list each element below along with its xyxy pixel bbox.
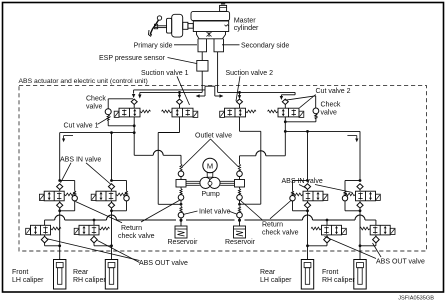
svg-text:ESP pressure sensor: ESP pressure sensor	[99, 55, 166, 62]
svg-text:Suction valve 1: Suction valve 1	[141, 70, 189, 77]
svg-text:check valve: check valve	[262, 229, 299, 236]
svg-text:Front: Front	[12, 269, 28, 276]
svg-text:ABS actuator and electric unit: ABS actuator and electric unit (control …	[19, 78, 148, 85]
svg-text:ABS OUT valve: ABS OUT valve	[376, 259, 425, 266]
svg-text:LH caliper: LH caliper	[12, 277, 44, 284]
svg-text:Front: Front	[322, 269, 338, 276]
svg-text:valve: valve	[321, 109, 337, 116]
svg-text:ABS IN valve: ABS IN valve	[282, 178, 323, 185]
svg-text:Return: Return	[121, 225, 142, 232]
svg-text:Secondary side: Secondary side	[241, 42, 289, 49]
svg-text:check valve: check valve	[118, 233, 155, 240]
svg-text:LH caliper: LH caliper	[260, 277, 292, 284]
svg-text:Cut valve 2: Cut valve 2	[316, 88, 351, 95]
svg-text:Inlet valve: Inlet valve	[199, 209, 231, 216]
svg-text:Cut valve 1: Cut valve 1	[64, 123, 99, 130]
svg-text:Suction valve 2: Suction valve 2	[226, 70, 274, 77]
svg-text:Reservoir: Reservoir	[225, 239, 256, 246]
svg-text:cylinder: cylinder	[234, 23, 259, 32]
svg-text:Return: Return	[262, 221, 283, 228]
svg-text:Pump: Pump	[202, 191, 220, 198]
svg-text:Check: Check	[321, 101, 341, 108]
svg-text:ABS OUT valve: ABS OUT valve	[139, 260, 188, 267]
svg-text:ABS IN valve: ABS IN valve	[60, 157, 101, 164]
svg-text:M: M	[207, 161, 213, 170]
svg-text:Reservoir: Reservoir	[168, 239, 199, 246]
svg-text:Primary side: Primary side	[134, 42, 173, 49]
svg-text:JSFIA0535GB: JSFIA0535GB	[398, 296, 434, 302]
svg-text:Check: Check	[86, 96, 106, 103]
svg-text:Outlet valve: Outlet valve	[195, 133, 232, 140]
svg-text:RH caliper: RH caliper	[73, 277, 106, 284]
svg-text:Rear: Rear	[73, 269, 89, 276]
svg-text:Rear: Rear	[260, 269, 276, 276]
svg-text:RH caliper: RH caliper	[322, 277, 355, 284]
svg-text:valve: valve	[86, 104, 102, 111]
